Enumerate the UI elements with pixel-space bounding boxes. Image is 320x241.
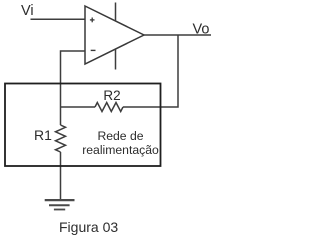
svg-text:Rede de: Rede de: [97, 129, 143, 143]
svg-text:realimentação: realimentação: [82, 143, 159, 157]
svg-text:R2: R2: [103, 88, 120, 103]
svg-text:R1: R1: [34, 127, 52, 143]
svg-text:Vo: Vo: [193, 22, 210, 38]
svg-text:Vi: Vi: [21, 3, 34, 19]
svg-text:Figura 03: Figura 03: [59, 219, 118, 235]
